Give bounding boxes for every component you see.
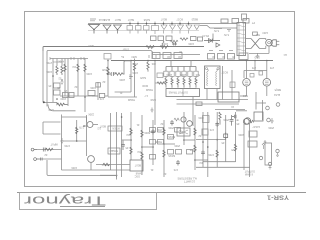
svg-text:6AN8: 6AN8 (143, 18, 150, 21)
svg-text:220K: 220K (88, 113, 94, 116)
cap row right (208, 54, 215, 60)
svg-text:ALL RESISTORS: ALL RESISTORS (177, 177, 197, 180)
svg-text:470K: 470K (58, 60, 64, 63)
right-bottom verticals (202, 112, 204, 167)
svg-text:.05: .05 (221, 141, 225, 144)
coupling cap + grid resistor (108, 72, 125, 76)
svg-text:2.7K: 2.7K (79, 126, 84, 129)
svg-text:.02: .02 (44, 153, 48, 156)
svg-text:220K: 220K (238, 133, 244, 136)
OT secondary box (218, 92, 239, 102)
horizontal links center-bottom (142, 146, 153, 148)
speaker jacks (266, 106, 270, 110)
svg-text:220K: 220K (180, 73, 186, 76)
svg-text:47K: 47K (173, 168, 178, 171)
svg-text:270K: 270K (46, 61, 52, 64)
svg-text:10K: 10K (163, 42, 168, 45)
svg-text:.01: .01 (119, 91, 123, 94)
center hanging resistor bank (166, 66, 196, 68)
svg-text:6AV6: 6AV6 (139, 76, 146, 79)
svg-text:.02: .02 (163, 172, 167, 175)
svg-text:.01: .01 (136, 123, 140, 126)
svg-text:.05: .05 (236, 122, 240, 125)
resistors on center-bottom verticals (130, 120, 205, 166)
screen rail (111, 60, 273, 62)
output transformer tall box (205, 66, 221, 89)
V1a triode (87, 122, 93, 128)
svg-text:VOL: VOL (156, 128, 162, 131)
svg-text:470K: 470K (208, 153, 214, 156)
heater box units (127, 25, 200, 34)
svg-text:PT: PT (251, 21, 255, 24)
input jacks (31, 148, 37, 151)
junction dots center-bottom (121, 116, 209, 161)
svg-text:6EU7: 6EU7 (134, 164, 141, 167)
svg-text:6.3V: 6.3V (224, 33, 229, 36)
stage-2 plate resistor on vertical x108 (107, 60, 109, 97)
svg-text:6BQ5: 6BQ5 (191, 17, 198, 20)
svg-text:6AN8: 6AN8 (135, 172, 142, 175)
svg-text:325V: 325V (88, 44, 94, 47)
svg-text:4.7: 4.7 (144, 94, 148, 97)
svg-text:4.7K: 4.7K (149, 45, 154, 48)
svg-text:270: 270 (269, 66, 274, 69)
tick marks on secondary rail (149, 55, 156, 58)
AC plug (271, 40, 276, 46)
chassis ground (256, 53, 259, 58)
pilot lamp (266, 39, 273, 46)
svg-text:56K: 56K (195, 73, 200, 76)
svg-text:SW: SW (255, 33, 260, 36)
svg-text:SPEED: SPEED (109, 149, 118, 152)
svg-text:1M: 1M (200, 161, 203, 164)
svg-text:TREB: TREB (155, 140, 162, 143)
driver tube right (243, 119, 249, 125)
heater return faint line (88, 30, 199, 32)
svg-text:PILOT: PILOT (201, 34, 209, 37)
svg-text:INTEN: INTEN (112, 127, 120, 130)
svg-text:120V: 120V (262, 31, 268, 34)
mid-left second stage (64, 59, 66, 97)
svg-text:Traynor: Traynor (24, 193, 106, 207)
svg-text:GND: GND (254, 56, 260, 59)
svg-text:.02: .02 (74, 85, 78, 88)
svg-text:TREM: TREM (146, 88, 153, 91)
cap on x98 (97, 82, 99, 100)
svg-text:6EU7: 6EU7 (160, 17, 167, 20)
svg-text:220K: 220K (119, 78, 125, 81)
svg-text:1M: 1M (127, 133, 130, 136)
svg-text:.02: .02 (102, 80, 106, 83)
center-bottom verticals (110, 113, 112, 170)
rail series resistors (146, 46, 154, 49)
svg-text:10K: 10K (151, 62, 156, 65)
secondary rail (47, 50, 200, 55)
svg-text:.01: .01 (150, 168, 154, 171)
svg-text:250K: 250K (174, 144, 180, 147)
svg-text:GND: GND (48, 108, 54, 111)
svg-text:8 OHM: 8 OHM (245, 173, 253, 176)
left preamp stage (42, 47, 44, 102)
svg-text:.05: .05 (48, 84, 52, 87)
heater ticks crossing top line (130, 22, 189, 26)
heater bus lower line right (200, 26, 237, 29)
svg-text:SEC: SEC (243, 94, 248, 97)
V1b triode (88, 156, 95, 163)
main B+ rail (43, 46, 204, 51)
svg-text:12AX7: 12AX7 (252, 125, 260, 128)
Traynor logo box (20, 193, 157, 210)
svg-text:6EU7: 6EU7 (114, 18, 121, 21)
svg-text:MOD: MOD (142, 84, 148, 87)
svg-text:100K: 100K (198, 116, 204, 119)
speaker output rectangle (265, 143, 272, 165)
tremolo tube (181, 117, 186, 122)
svg-text:.02: .02 (113, 71, 117, 74)
svg-text:1500: 1500 (60, 97, 66, 100)
svg-text:100K: 100K (188, 42, 194, 45)
svg-text:100K: 100K (71, 166, 77, 169)
svg-text:6.3V: 6.3V (214, 29, 219, 32)
svg-text:325V: 325V (131, 55, 137, 58)
power tubes V4 V5 (243, 79, 251, 87)
driver tube (187, 121, 193, 127)
svg-text:GND: GND (150, 98, 156, 101)
svg-text:OUTPUT TRANS: OUTPUT TRANS (168, 91, 188, 94)
cathode branch (76, 120, 78, 141)
tiny label text blobs (rotated 180 like the scan) (44, 18, 287, 183)
schematic frame (25, 12, 295, 187)
bias row small parts under heater band (151, 36, 203, 47)
filter cap boxes under rail (152, 53, 160, 59)
svg-text:YSR-1: YSR-1 (266, 194, 289, 201)
svg-text:1/2 WATT: 1/2 WATT (184, 180, 195, 183)
output jacks (276, 149, 279, 152)
svg-text:6EU7: 6EU7 (127, 18, 134, 21)
svg-text:100K: 100K (90, 86, 96, 89)
svg-text:250K: 250K (132, 62, 138, 65)
svg-text:.005: .005 (179, 131, 184, 134)
bank left small parts (157, 73, 163, 78)
svg-text:220K: 220K (166, 73, 172, 76)
driver coupling box (two cell) (166, 89, 200, 97)
svg-text:.02: .02 (58, 77, 62, 80)
Traynor logo text (24, 193, 106, 207)
standby switch box on rail (104, 54, 111, 60)
tone stack small boxes (150, 128, 193, 160)
heater bus top line (88, 23, 237, 25)
svg-text:250K: 250K (268, 126, 274, 129)
svg-text:TREM: TREM (128, 98, 135, 101)
svg-text:6CA4: 6CA4 (98, 18, 105, 21)
svg-text:.02: .02 (198, 134, 202, 137)
svg-text:OSC: OSC (134, 175, 140, 178)
box above transformer (242, 14, 247, 20)
svg-text:1M: 1M (138, 150, 141, 153)
svg-text:STBY: STBY (122, 48, 129, 51)
svg-text:BASS: BASS (168, 135, 175, 138)
power switch S1 (251, 39, 260, 49)
svg-text:47K: 47K (99, 97, 104, 100)
svg-text:1M: 1M (73, 65, 76, 68)
separator line (17, 192, 306, 194)
svg-text:6EU7: 6EU7 (101, 163, 108, 166)
mid resistors center-bottom (121, 128, 196, 152)
svg-text:AC: AC (283, 53, 287, 56)
lower-left long verticals (61, 115, 63, 171)
svg-text:1/2: 1/2 (97, 127, 101, 130)
svg-text:6CG7: 6CG7 (221, 71, 228, 74)
svg-text:100K: 100K (132, 71, 138, 74)
svg-text:.02: .02 (160, 122, 164, 125)
svg-text:470K: 470K (64, 144, 70, 147)
heater junction dots (93, 23, 189, 31)
heater triangle units (89, 25, 122, 34)
ground arrow on left column (60, 138, 63, 143)
pilot lamp small boxes above right heater line (221, 19, 228, 23)
svg-text:100K: 100K (86, 72, 92, 75)
power wiring (246, 38, 252, 40)
power transformer T1 (237, 23, 246, 56)
bottom return wire (47, 160, 117, 180)
svg-text:1M5: 1M5 (102, 68, 107, 71)
rectifier diodes D1 D2 (204, 39, 220, 47)
svg-text:B+: B+ (120, 55, 124, 58)
svg-text:INPUT: INPUT (50, 143, 58, 146)
svg-text:47K: 47K (209, 128, 214, 131)
second stage box (130, 160, 143, 171)
svg-text:500K: 500K (144, 131, 150, 134)
svg-text:270: 270 (251, 66, 256, 69)
svg-text:47K: 47K (189, 148, 194, 151)
svg-text:100K: 100K (46, 70, 52, 73)
svg-text:6BQ5: 6BQ5 (274, 88, 281, 91)
svg-text:6CG7: 6CG7 (176, 17, 183, 20)
svg-text:EL84: EL84 (274, 93, 280, 96)
input corner wire (42, 122, 44, 134)
heater label marks above (90, 19, 96, 21)
long verticals center (130, 61, 132, 93)
1M resistor at x148 (147, 61, 149, 63)
components on right-bottom verticals (215, 115, 238, 158)
svg-text:250K: 250K (223, 118, 229, 121)
svg-text:OUTPUT: OUTPUT (244, 170, 255, 173)
svg-text:.05: .05 (125, 146, 129, 149)
svg-text:250K: 250K (168, 126, 174, 129)
svg-text:BASS: BASS (168, 154, 175, 157)
